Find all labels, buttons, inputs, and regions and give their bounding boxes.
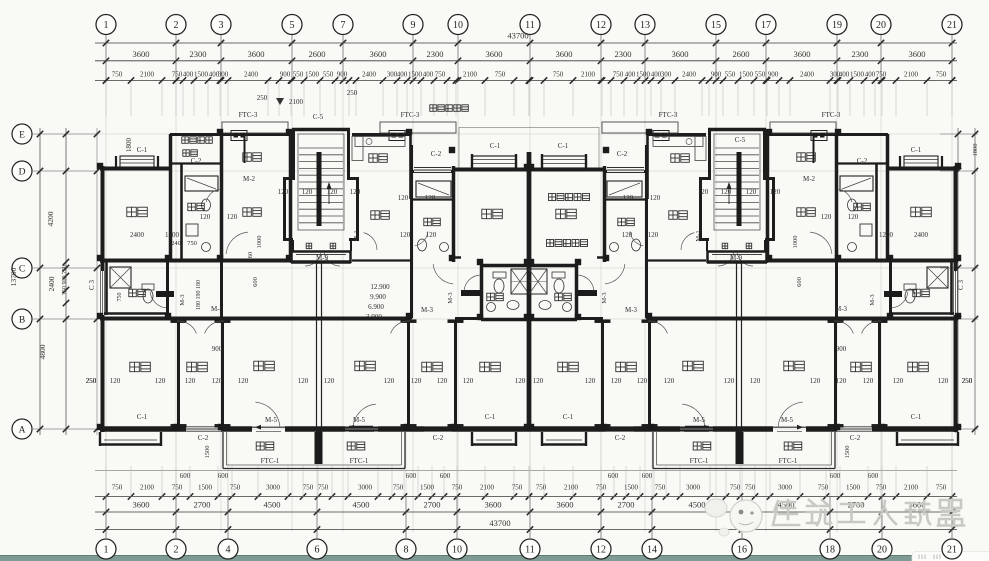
svg-text:A: A <box>19 425 26 435</box>
svg-text:120: 120 <box>425 194 436 202</box>
svg-text:12: 12 <box>596 545 606 556</box>
svg-text:M-3: M-3 <box>835 305 848 313</box>
svg-text:1200: 1200 <box>879 231 894 239</box>
svg-text:1500: 1500 <box>305 71 320 79</box>
svg-text:750: 750 <box>613 71 624 79</box>
svg-text:750: 750 <box>876 484 887 492</box>
svg-text:750: 750 <box>117 293 123 302</box>
svg-text:900: 900 <box>711 71 722 79</box>
svg-text:M-3: M-3 <box>179 294 186 305</box>
svg-text:1500: 1500 <box>846 484 861 492</box>
svg-text:120: 120 <box>398 194 409 202</box>
svg-text:750: 750 <box>745 484 756 492</box>
svg-text:750: 750 <box>596 484 607 492</box>
svg-text:3000: 3000 <box>358 484 373 492</box>
svg-text:2700: 2700 <box>424 500 441 510</box>
svg-text:C-2: C-2 <box>617 150 628 158</box>
svg-text:240: 240 <box>171 240 181 247</box>
svg-text:C-1: C-1 <box>137 413 148 421</box>
svg-text:120: 120 <box>648 231 659 239</box>
svg-text:120: 120 <box>585 377 596 385</box>
svg-text:120: 120 <box>698 188 709 196</box>
svg-text:120: 120 <box>650 194 661 202</box>
svg-text:15: 15 <box>711 20 721 31</box>
svg-text:120: 120 <box>810 377 821 385</box>
svg-text:M-1: M-1 <box>695 230 702 241</box>
svg-text:750: 750 <box>936 71 947 79</box>
svg-text:750: 750 <box>112 484 123 492</box>
svg-text:120: 120 <box>721 188 732 196</box>
svg-text:120: 120 <box>110 377 121 385</box>
svg-text:M-3: M-3 <box>625 306 638 314</box>
svg-text:1500: 1500 <box>194 71 209 79</box>
svg-text:2600: 2600 <box>309 49 326 59</box>
svg-text:250: 250 <box>347 89 358 97</box>
svg-text:600: 600 <box>642 472 653 480</box>
svg-text:20: 20 <box>877 545 887 556</box>
svg-text:120: 120 <box>426 231 437 239</box>
svg-text:2100: 2100 <box>463 71 478 79</box>
svg-text:600: 600 <box>608 472 619 480</box>
svg-text:900: 900 <box>280 71 291 79</box>
svg-text:400: 400 <box>397 71 408 79</box>
svg-text:120: 120 <box>623 194 634 202</box>
svg-text:120: 120 <box>893 377 904 385</box>
svg-text:120: 120 <box>750 377 761 385</box>
svg-text:M-9: M-9 <box>730 254 743 262</box>
svg-text:900: 900 <box>836 345 847 353</box>
svg-text:C-2: C-2 <box>433 434 444 442</box>
svg-text:11: 11 <box>525 545 535 556</box>
svg-text:750: 750 <box>435 71 446 79</box>
svg-text:C-1: C-1 <box>485 413 496 421</box>
svg-text:250: 250 <box>257 94 268 102</box>
svg-text:FTC-3: FTC-3 <box>822 111 841 119</box>
svg-text:120: 120 <box>384 377 395 385</box>
svg-text:750: 750 <box>730 484 741 492</box>
svg-text:750: 750 <box>318 484 329 492</box>
svg-text:120: 120 <box>938 377 949 385</box>
svg-text:750: 750 <box>553 71 564 79</box>
svg-text:120: 120 <box>770 188 781 196</box>
svg-text:120: 120 <box>533 377 544 385</box>
svg-text:FTC-1: FTC-1 <box>261 457 280 465</box>
svg-text:2400: 2400 <box>914 231 929 239</box>
svg-text:600: 600 <box>440 472 451 480</box>
svg-text:2700: 2700 <box>194 500 211 510</box>
svg-text:3600: 3600 <box>556 49 573 59</box>
svg-text:400: 400 <box>839 71 850 79</box>
svg-text:550: 550 <box>755 71 766 79</box>
svg-text:120: 120 <box>664 377 675 385</box>
svg-text:2700: 2700 <box>618 500 635 510</box>
svg-text:1500: 1500 <box>844 446 851 459</box>
svg-text:120: 120 <box>821 213 832 221</box>
svg-text:M-2: M-2 <box>243 175 256 183</box>
svg-text:3600: 3600 <box>248 49 265 59</box>
svg-text:300: 300 <box>661 71 672 79</box>
svg-text:10: 10 <box>453 20 463 31</box>
svg-text:2300: 2300 <box>852 49 869 59</box>
svg-text:120: 120 <box>515 377 526 385</box>
svg-text:120: 120 <box>637 377 648 385</box>
svg-text:750: 750 <box>936 484 947 492</box>
svg-text:C-1: C-1 <box>563 413 574 421</box>
svg-text:6: 6 <box>315 545 320 556</box>
svg-text:4: 4 <box>226 545 231 556</box>
svg-text:120: 120 <box>324 377 335 385</box>
svg-text:400: 400 <box>651 71 662 79</box>
svg-text:1500: 1500 <box>408 71 423 79</box>
svg-text:750: 750 <box>512 484 523 492</box>
svg-text:3600: 3600 <box>485 500 502 510</box>
svg-text:M-5: M-5 <box>693 416 706 424</box>
svg-text:C-1: C-1 <box>558 142 569 150</box>
svg-text:750: 750 <box>187 240 197 247</box>
svg-text:M-3: M-3 <box>869 294 876 305</box>
svg-text:4500: 4500 <box>689 500 706 510</box>
svg-text:3: 3 <box>219 20 224 31</box>
svg-text:12: 12 <box>596 20 606 31</box>
svg-text:120: 120 <box>227 213 238 221</box>
svg-text:1800: 1800 <box>125 138 133 153</box>
svg-text:180 190 180: 180 190 180 <box>196 280 202 310</box>
svg-text:120: 120 <box>302 188 313 196</box>
svg-text:2300: 2300 <box>615 49 632 59</box>
svg-text:M-3: M-3 <box>447 292 454 303</box>
svg-text:1500: 1500 <box>420 484 435 492</box>
svg-text:3600: 3600 <box>909 49 926 59</box>
svg-text:2400: 2400 <box>682 71 697 79</box>
svg-text:2: 2 <box>174 545 179 556</box>
svg-text:600: 600 <box>868 472 879 480</box>
svg-text:1: 1 <box>104 20 109 31</box>
svg-text:C 3: C 3 <box>88 280 96 290</box>
svg-text:120: 120 <box>155 377 166 385</box>
svg-text:900: 900 <box>768 71 779 79</box>
svg-text:120: 120 <box>411 377 422 385</box>
svg-text:2300: 2300 <box>190 49 207 59</box>
svg-text:M-9: M-9 <box>316 254 329 262</box>
svg-text:750: 750 <box>393 484 404 492</box>
svg-text:600: 600 <box>830 472 841 480</box>
svg-text:M-1: M-1 <box>353 230 360 241</box>
svg-text:2300: 2300 <box>427 49 444 59</box>
svg-text:1500: 1500 <box>198 484 213 492</box>
svg-text:120: 120 <box>212 377 223 385</box>
svg-text:120: 120 <box>238 377 249 385</box>
svg-text:1500: 1500 <box>624 484 639 492</box>
svg-text:9.900: 9.900 <box>370 293 386 301</box>
svg-text:3600: 3600 <box>672 49 689 59</box>
svg-text:D: D <box>19 167 26 177</box>
svg-text:3600: 3600 <box>370 49 387 59</box>
svg-text:1500: 1500 <box>636 71 651 79</box>
svg-text:2400: 2400 <box>130 231 145 239</box>
svg-text:900: 900 <box>337 71 348 79</box>
svg-text:120: 120 <box>746 188 757 196</box>
svg-text:2100: 2100 <box>904 71 919 79</box>
svg-text:20: 20 <box>876 20 886 31</box>
svg-text:C-2: C-2 <box>857 157 868 165</box>
svg-text:120: 120 <box>622 231 633 239</box>
svg-text:C-2: C-2 <box>615 434 626 442</box>
svg-text:120: 120 <box>836 377 847 385</box>
svg-text:600: 600 <box>252 277 259 287</box>
svg-text:17: 17 <box>761 20 771 31</box>
svg-text:550: 550 <box>323 71 334 79</box>
svg-text:120: 120 <box>278 188 289 196</box>
svg-text:1000: 1000 <box>256 236 263 249</box>
svg-text:9: 9 <box>411 20 416 31</box>
svg-text:750: 750 <box>230 484 241 492</box>
svg-text:C-1: C-1 <box>490 142 501 150</box>
svg-text:600: 600 <box>218 472 229 480</box>
svg-text:3600: 3600 <box>133 49 150 59</box>
svg-text:2400: 2400 <box>800 71 815 79</box>
svg-text:1000: 1000 <box>792 236 799 249</box>
svg-text:C-2: C-2 <box>431 150 442 158</box>
svg-text:21: 21 <box>947 545 957 556</box>
svg-text:120: 120 <box>327 188 338 196</box>
svg-text:C: C <box>19 264 25 274</box>
svg-text:M-3: M-3 <box>211 305 224 313</box>
svg-text:11: 11 <box>525 20 535 31</box>
svg-text:900: 900 <box>212 345 223 353</box>
svg-text:2600: 2600 <box>733 49 750 59</box>
svg-text:C-5: C-5 <box>735 136 746 144</box>
svg-text:C-1: C-1 <box>911 413 922 421</box>
svg-text:3000: 3000 <box>266 484 281 492</box>
svg-text:120: 120 <box>724 377 735 385</box>
svg-text:750: 750 <box>876 71 887 79</box>
svg-text:C-2: C-2 <box>191 157 202 165</box>
svg-text:18: 18 <box>825 545 835 556</box>
svg-text:400: 400 <box>423 71 434 79</box>
svg-text:12.900: 12.900 <box>370 283 390 291</box>
svg-text:10: 10 <box>452 545 462 556</box>
svg-text:3600: 3600 <box>486 49 503 59</box>
svg-text:M-5: M-5 <box>265 416 278 424</box>
svg-text:7: 7 <box>341 20 346 31</box>
svg-text:3000: 3000 <box>778 484 793 492</box>
svg-text:3600: 3600 <box>794 49 811 59</box>
svg-text:750: 750 <box>536 484 547 492</box>
svg-text:2100: 2100 <box>289 98 304 106</box>
svg-text:5: 5 <box>290 20 295 31</box>
svg-text:4800: 4800 <box>38 344 47 359</box>
svg-text:120: 120 <box>863 377 874 385</box>
svg-text:C-2: C-2 <box>198 434 209 442</box>
svg-text:2100: 2100 <box>140 71 155 79</box>
svg-text:400: 400 <box>865 71 876 79</box>
svg-text:13700: 13700 <box>9 267 18 286</box>
svg-text:43700: 43700 <box>489 518 510 528</box>
svg-text:FTC-3: FTC-3 <box>239 111 258 119</box>
svg-text:120: 120 <box>185 377 196 385</box>
svg-text:250: 250 <box>86 377 97 385</box>
svg-text:C-5: C-5 <box>313 113 324 121</box>
svg-text:1200: 1200 <box>165 231 180 239</box>
svg-text:2100: 2100 <box>480 484 495 492</box>
svg-text:600: 600 <box>180 472 191 480</box>
svg-text:1500: 1500 <box>739 71 754 79</box>
svg-text:6.900: 6.900 <box>368 303 384 311</box>
svg-text:600: 600 <box>796 277 803 287</box>
svg-text:M-2: M-2 <box>803 175 816 183</box>
svg-text:M-5: M-5 <box>781 416 794 424</box>
svg-text:2: 2 <box>174 20 179 31</box>
svg-text:M-3: M-3 <box>601 292 608 303</box>
svg-text:750: 750 <box>818 484 829 492</box>
svg-text:300: 300 <box>830 71 841 79</box>
svg-text:550: 550 <box>725 71 736 79</box>
svg-text:2100: 2100 <box>904 484 919 492</box>
svg-text:300: 300 <box>218 71 229 79</box>
svg-text:1500: 1500 <box>204 446 211 459</box>
svg-text:750: 750 <box>172 484 183 492</box>
svg-text:2400: 2400 <box>47 276 56 291</box>
svg-text:750 900 750: 750 900 750 <box>62 265 68 295</box>
svg-text:16: 16 <box>737 545 747 556</box>
svg-text:FTC-1: FTC-1 <box>350 457 369 465</box>
svg-text:120: 120 <box>437 377 448 385</box>
svg-text:M-3: M-3 <box>421 306 434 314</box>
svg-text:120: 120 <box>611 377 622 385</box>
svg-text:C-2: C-2 <box>850 434 861 442</box>
svg-text:C-1: C-1 <box>137 146 148 154</box>
svg-text:2100: 2100 <box>581 71 596 79</box>
svg-text:2100: 2100 <box>140 484 155 492</box>
svg-text:13: 13 <box>640 20 650 31</box>
svg-text:750: 750 <box>495 71 506 79</box>
svg-text:250: 250 <box>962 377 973 385</box>
svg-text:750: 750 <box>172 71 183 79</box>
svg-text:750: 750 <box>655 484 666 492</box>
svg-text:4200: 4200 <box>46 211 55 226</box>
svg-text:FTC-3: FTC-3 <box>401 111 420 119</box>
svg-text:120: 120 <box>463 377 474 385</box>
svg-text:3.900: 3.900 <box>366 313 382 321</box>
svg-text:14: 14 <box>647 545 657 556</box>
svg-text:750: 750 <box>452 484 463 492</box>
svg-text:120: 120 <box>848 213 859 221</box>
svg-text:4500: 4500 <box>353 500 370 510</box>
svg-text:1: 1 <box>104 545 109 556</box>
svg-text:4500: 4500 <box>264 500 281 510</box>
svg-text:FTC-1: FTC-1 <box>690 457 709 465</box>
svg-text:3600: 3600 <box>133 500 150 510</box>
svg-text:400: 400 <box>625 71 636 79</box>
svg-text:120: 120 <box>350 188 361 196</box>
svg-text:19: 19 <box>832 20 842 31</box>
svg-text:FTC-3: FTC-3 <box>659 111 678 119</box>
svg-text:3000: 3000 <box>686 484 701 492</box>
svg-text:120: 120 <box>400 231 411 239</box>
svg-text:B: B <box>19 315 25 325</box>
svg-text:60: 60 <box>247 252 254 259</box>
svg-text:600: 600 <box>406 472 417 480</box>
svg-text:400: 400 <box>183 71 194 79</box>
svg-text:120: 120 <box>200 213 211 221</box>
svg-text:120: 120 <box>298 377 309 385</box>
svg-text:1800: 1800 <box>972 144 979 157</box>
svg-text:2400: 2400 <box>244 71 259 79</box>
svg-text:750: 750 <box>303 484 314 492</box>
svg-text:21: 21 <box>947 20 957 31</box>
svg-text:2400: 2400 <box>362 71 377 79</box>
svg-text:1500: 1500 <box>850 71 865 79</box>
svg-text:FTC-1: FTC-1 <box>779 457 798 465</box>
svg-text:E: E <box>19 130 25 140</box>
svg-text:750: 750 <box>112 71 123 79</box>
svg-text:C 3: C 3 <box>957 280 965 290</box>
svg-text:3600: 3600 <box>557 500 574 510</box>
svg-text:8: 8 <box>404 545 409 556</box>
svg-text:550: 550 <box>293 71 304 79</box>
svg-text:2100: 2100 <box>564 484 579 492</box>
svg-text:C-1: C-1 <box>911 146 922 154</box>
svg-text:43700: 43700 <box>507 31 528 41</box>
svg-text:M-5: M-5 <box>353 416 366 424</box>
